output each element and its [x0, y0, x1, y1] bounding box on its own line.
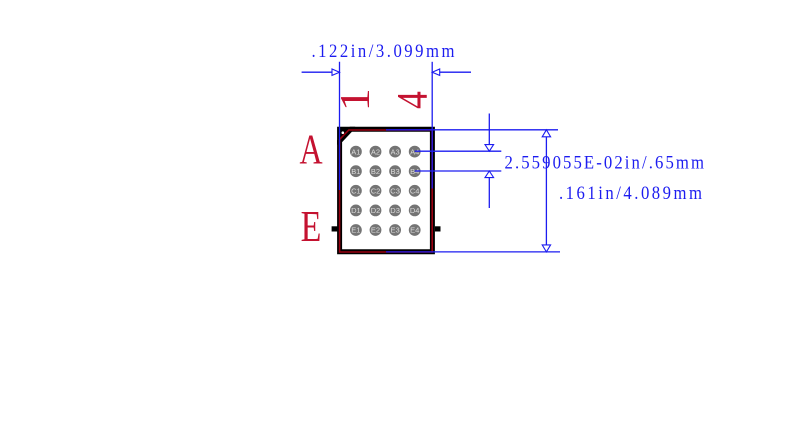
- arrow: pitch dim bottom (points up): [485, 171, 494, 178]
- pad B4: [409, 165, 421, 177]
- wire: row B extension line: [415, 170, 502, 172]
- wire: pitch dim line upper: [488, 114, 490, 152]
- arrow: width dim left (points right): [332, 69, 340, 75]
- svg-text:C4: C4: [410, 187, 420, 196]
- arrow: pitch dim top (points down): [485, 145, 494, 152]
- pad D2: [370, 205, 382, 217]
- pad A4: [409, 146, 421, 158]
- wire: height dim line: [545, 130, 547, 252]
- wire: width dim arrow line left: [302, 71, 333, 73]
- svg-text:D1: D1: [351, 206, 361, 215]
- pad A1: [350, 146, 362, 158]
- pad D1: [350, 205, 362, 217]
- pad D4: [409, 205, 421, 217]
- svg-text:E4: E4: [410, 226, 419, 235]
- svg-text:C2: C2: [371, 187, 381, 196]
- arrow: height dim top (points up): [542, 130, 550, 137]
- wire: pitch dim line lower: [488, 171, 490, 208]
- pad A3: [389, 146, 401, 158]
- svg-text:1: 1: [330, 88, 378, 111]
- svg-text:C1: C1: [351, 187, 361, 196]
- svg-text:A: A: [299, 127, 322, 173]
- wire: blue overlay on bottom border + bottom extension to height dim: [386, 251, 560, 253]
- wire: left width-dim extension line: [339, 62, 341, 190]
- pad B1: [350, 165, 362, 177]
- wire: row A extension line: [415, 150, 502, 152]
- svg-text:D4: D4: [410, 206, 420, 215]
- pin-1 white dot: [342, 131, 345, 134]
- pin-1 corner black fill: [337, 127, 355, 145]
- svg-text:B3: B3: [391, 167, 400, 176]
- arrow: width dim right (points left): [432, 69, 440, 75]
- svg-text:E2: E2: [371, 226, 380, 235]
- pad D3: [389, 205, 401, 217]
- left side tab: [332, 226, 338, 231]
- pad E3: [389, 224, 401, 236]
- pad E2: [370, 224, 382, 236]
- svg-text:A2: A2: [371, 147, 380, 156]
- svg-text:A1: A1: [351, 147, 360, 156]
- wire: width dim arrow line right: [440, 71, 472, 73]
- assembly outline (dark red, chamfered top-left): [340, 130, 433, 252]
- pad E4: [409, 224, 421, 236]
- pads grid A1..E4: [350, 146, 421, 236]
- right side tab: [435, 226, 441, 231]
- svg-text:E3: E3: [391, 226, 400, 235]
- svg-text:A3: A3: [391, 147, 400, 156]
- svg-text:.122in/3.099mm: .122in/3.099mm: [312, 40, 455, 61]
- wire: blue overlay on top border + top extension to height dim: [386, 129, 558, 131]
- pad C3: [389, 185, 401, 197]
- svg-text:4: 4: [388, 91, 436, 109]
- wire: right width-dim extension line: [431, 62, 433, 189]
- pad C1: [350, 185, 362, 197]
- pad A2: [370, 146, 382, 158]
- svg-text:D3: D3: [390, 206, 400, 215]
- svg-text:B2: B2: [371, 167, 380, 176]
- svg-text:B1: B1: [351, 167, 360, 176]
- svg-text:E: E: [301, 202, 322, 251]
- svg-text:C3: C3: [390, 187, 400, 196]
- package body outline (silkscreen, black, chamfered top-left): [340, 129, 433, 252]
- svg-text:E1: E1: [351, 226, 360, 235]
- pad E1: [350, 224, 362, 236]
- pad B2: [370, 165, 382, 177]
- arrow: height dim bottom (points down): [542, 245, 550, 252]
- pad C4: [409, 185, 421, 197]
- pad B3: [389, 165, 401, 177]
- svg-text:.161in/4.089mm: .161in/4.089mm: [559, 182, 702, 203]
- pad C2: [370, 185, 382, 197]
- svg-text:D2: D2: [371, 206, 381, 215]
